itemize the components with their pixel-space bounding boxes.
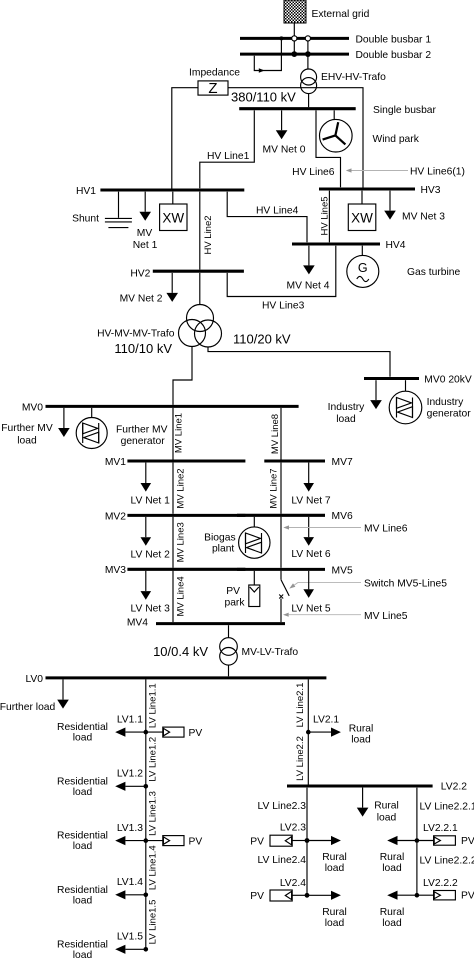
wire HV2 to 3-winding trafo xyxy=(199,273,201,305)
HV-MV-MV-Trafo (3 winding) xyxy=(97,305,291,357)
svg-text:PV: PV xyxy=(461,836,474,847)
busbar HV2 xyxy=(130,269,244,280)
svg-text:LV1.1: LV1.1 xyxy=(117,715,143,726)
HV Line1 xyxy=(200,110,255,188)
svg-text:MV0: MV0 xyxy=(22,403,43,414)
busbar MV2 xyxy=(105,511,246,522)
svg-text:LV2.2.1: LV2.2.1 xyxy=(423,823,458,834)
svg-text:PV: PV xyxy=(461,891,474,902)
svg-text:LV Line2.4: LV Line2.4 xyxy=(258,855,307,866)
biogas plant generator (sgen) xyxy=(204,517,270,559)
further MV load xyxy=(1,408,69,447)
svg-text:Residential: Residential xyxy=(57,831,108,842)
busbar LV2.2 xyxy=(287,782,467,793)
svg-text:MV Line4: MV Line4 xyxy=(176,576,187,616)
svg-text:MV Net 2: MV Net 2 xyxy=(120,293,163,304)
svg-text:MV Line1: MV Line1 xyxy=(174,413,185,453)
HV Line4 xyxy=(227,192,307,243)
svg-text:Rural: Rural xyxy=(322,852,347,863)
external grid xyxy=(284,0,370,23)
bus coupler busbar1-busbar2 xyxy=(254,36,283,72)
svg-text:load: load xyxy=(382,918,402,929)
PV at LV1.3 xyxy=(146,836,203,848)
svg-text:MV7: MV7 xyxy=(332,457,353,468)
svg-text:HV Line6: HV Line6 xyxy=(292,167,335,178)
svg-text:Double busbar 1: Double busbar 1 xyxy=(356,34,432,45)
impedance Z xyxy=(172,68,363,189)
svg-text:Rural: Rural xyxy=(380,852,405,863)
svg-text:MV Line2: MV Line2 xyxy=(176,468,187,508)
svg-text:generator: generator xyxy=(427,409,472,420)
svg-text:LV Net 3: LV Net 3 xyxy=(131,604,171,615)
svg-text:load: load xyxy=(73,950,93,958)
svg-text:HV Line1: HV Line1 xyxy=(207,151,250,162)
svg-text:LV2.2: LV2.2 xyxy=(441,782,467,793)
busbar LV0 xyxy=(25,674,326,685)
svg-text:load: load xyxy=(73,733,93,744)
load LV Net 2 xyxy=(131,517,171,560)
svg-text:LV Line1.2: LV Line1.2 xyxy=(148,737,159,782)
svg-text:Rural: Rural xyxy=(322,907,347,918)
svg-text:HV Line5: HV Line5 xyxy=(320,196,331,235)
svg-text:LV1.3: LV1.3 xyxy=(117,823,143,834)
shunt at HV1 xyxy=(72,192,132,228)
HV Line2 xyxy=(200,192,214,270)
svg-text:Shunt: Shunt xyxy=(72,214,99,225)
svg-text:Gas turbine: Gas turbine xyxy=(407,267,461,278)
node LV1.2 residential load xyxy=(57,769,148,798)
svg-text:10/0.4 kV: 10/0.4 kV xyxy=(153,644,208,659)
svg-text:load: load xyxy=(325,863,345,874)
wire trafo MV winding to MV0 20kV xyxy=(208,347,390,377)
svg-text:LV Line1.3: LV Line1.3 xyxy=(148,791,159,836)
svg-text:HV2: HV2 xyxy=(130,269,150,280)
svg-text:generator: generator xyxy=(121,436,166,447)
busbar HV1 xyxy=(76,186,244,197)
svg-text:Industry: Industry xyxy=(427,397,464,408)
node LV1.1 residential load xyxy=(57,715,148,744)
double busbar 2 xyxy=(240,50,431,61)
svg-text:Industry: Industry xyxy=(328,402,365,413)
pointer HV Line6(1) xyxy=(346,167,465,178)
MV Line7 xyxy=(269,463,282,514)
svg-text:MV6: MV6 xyxy=(332,511,353,522)
svg-text:MV Line3: MV Line3 xyxy=(176,522,187,562)
svg-text:HV Line4: HV Line4 xyxy=(256,206,299,217)
load MV Net 1 xyxy=(133,192,158,251)
svg-text:LV2.3: LV2.3 xyxy=(280,823,306,834)
svg-text:load: load xyxy=(325,918,345,929)
svg-text:park: park xyxy=(224,598,245,609)
double busbar 1 xyxy=(240,34,431,45)
node LV2.4 xyxy=(280,878,347,929)
svg-text:HV4: HV4 xyxy=(386,240,406,251)
svg-text:110/10 kV: 110/10 kV xyxy=(114,341,172,356)
svg-text:Biogas: Biogas xyxy=(204,533,235,544)
PV at LV2.3 xyxy=(250,835,307,847)
svg-text:Residential: Residential xyxy=(57,939,108,950)
svg-text:load: load xyxy=(351,735,371,746)
svg-text:MV Net 0: MV Net 0 xyxy=(263,145,306,156)
PV at LV1.1 xyxy=(146,727,203,739)
svg-text:XW: XW xyxy=(162,210,184,225)
svg-text:LV Line2.3: LV Line2.3 xyxy=(258,801,307,812)
busbar MV0 xyxy=(22,403,299,414)
svg-text:LV Line2.2.2: LV Line2.2.2 xyxy=(420,856,474,867)
load MV Net 2 xyxy=(120,273,178,304)
svg-text:PV: PV xyxy=(226,586,240,597)
extended ward XW at HV1 xyxy=(160,192,187,231)
PV at LV2.2.2 xyxy=(417,891,474,902)
svg-text:load: load xyxy=(73,787,93,798)
busbar MV5 xyxy=(237,565,353,576)
wire trafo LV winding to MV0 xyxy=(173,346,192,405)
busbar MV4 xyxy=(127,618,285,629)
svg-text:plant: plant xyxy=(212,544,234,555)
svg-text:MV0 20kV: MV0 20kV xyxy=(424,375,472,386)
EHV-HV-Trafo xyxy=(301,69,387,94)
svg-text:LV1.5: LV1.5 xyxy=(117,932,143,943)
svg-text:MV Net 4: MV Net 4 xyxy=(287,281,330,292)
svg-text:Residential: Residential xyxy=(57,776,108,787)
svg-text:load: load xyxy=(336,414,356,425)
svg-text:MV1: MV1 xyxy=(105,457,126,468)
svg-text:Further load: Further load xyxy=(0,702,56,713)
svg-text:load: load xyxy=(377,813,397,824)
svg-text:Residential: Residential xyxy=(57,885,108,896)
svg-text:Double busbar 2: Double busbar 2 xyxy=(356,50,432,61)
pointer MV Line6 xyxy=(283,524,407,535)
svg-text:LV Line1.5: LV Line1.5 xyxy=(148,900,159,945)
LV feeder 2 wire xyxy=(307,679,309,786)
svg-text:MV Line8: MV Line8 xyxy=(270,414,281,454)
svg-text:110/20 kV: 110/20 kV xyxy=(233,332,291,347)
load LV Net 5 xyxy=(291,571,331,615)
svg-text:LV Net 6: LV Net 6 xyxy=(291,549,331,560)
svg-text:load: load xyxy=(382,863,402,874)
load MV Net 4 xyxy=(287,246,330,292)
svg-text:MV5: MV5 xyxy=(332,565,353,576)
svg-text:LV1.4: LV1.4 xyxy=(117,877,143,888)
switch MV5-Line5 (open) xyxy=(279,571,289,599)
svg-text:PV: PV xyxy=(250,891,264,902)
svg-text:Switch MV5-Line5: Switch MV5-Line5 xyxy=(364,579,447,590)
busbar MV6 xyxy=(237,511,353,522)
node LV2.1 rural load xyxy=(306,715,373,746)
svg-text:LV2.1: LV2.1 xyxy=(313,715,339,726)
svg-text:Single busbar: Single busbar xyxy=(373,105,437,116)
svg-text:LV2.2.2: LV2.2.2 xyxy=(423,878,458,889)
svg-text:Impedance: Impedance xyxy=(189,68,240,79)
extended ward XW at HV3 xyxy=(348,191,376,231)
svg-text:MV2: MV2 xyxy=(105,511,126,522)
svg-text:PV: PV xyxy=(250,836,264,847)
svg-text:HV Line3: HV Line3 xyxy=(262,301,305,312)
svg-text:LV1.2: LV1.2 xyxy=(117,769,143,780)
busbar HV3 xyxy=(319,185,441,196)
MV Line1 xyxy=(173,408,185,460)
wire busbar2 to EHV-HV-Trafo xyxy=(307,54,309,69)
svg-text:Residential: Residential xyxy=(57,722,108,733)
industry generator (sgen) xyxy=(389,380,471,424)
MV Line2 xyxy=(173,463,187,514)
svg-text:PV: PV xyxy=(189,728,203,739)
wire busbar1 to busbar2 second bay xyxy=(307,38,309,54)
svg-text:Z: Z xyxy=(208,80,217,97)
MV Line5 wire xyxy=(280,599,282,623)
svg-text:HV Line2: HV Line2 xyxy=(203,215,214,254)
svg-text:Further MV: Further MV xyxy=(1,423,53,434)
LV Line2.2.x branch wire xyxy=(416,788,418,896)
industry load xyxy=(328,380,382,425)
svg-text:HV-MV-MV-Trafo: HV-MV-MV-Trafo xyxy=(97,329,175,340)
load LV Net 7 xyxy=(291,463,331,507)
rural load at LV2.2 xyxy=(357,788,399,824)
svg-text:MV Line5: MV Line5 xyxy=(364,611,408,622)
svg-text:load: load xyxy=(73,895,93,906)
gas turbine generator xyxy=(347,246,461,288)
svg-text:EHV-HV-Trafo: EHV-HV-Trafo xyxy=(321,72,386,83)
svg-text:HV Line6(1): HV Line6(1) xyxy=(410,167,465,178)
busbar MV1 xyxy=(105,457,246,468)
node LV1.5 residential load xyxy=(57,932,148,958)
load MV Net 3 xyxy=(384,191,445,223)
HV Line5 xyxy=(320,191,331,243)
load MV Net 0 xyxy=(263,110,306,155)
svg-text:MV Net 3: MV Net 3 xyxy=(402,212,445,223)
svg-text:LV Net 1: LV Net 1 xyxy=(131,496,171,507)
wind park generator xyxy=(320,110,420,152)
svg-text:LV Line1.1: LV Line1.1 xyxy=(148,683,159,728)
svg-text:load: load xyxy=(73,841,93,852)
further load xyxy=(0,679,69,712)
svg-text:Wind park: Wind park xyxy=(373,134,420,145)
svg-text:MV: MV xyxy=(137,228,153,239)
node LV1.4 residential load xyxy=(57,877,148,906)
svg-text:LV Net 5: LV Net 5 xyxy=(291,604,331,615)
svg-text:PV: PV xyxy=(189,836,203,847)
PV at LV2.2.1 xyxy=(417,836,474,847)
node LV2.2.2 xyxy=(380,878,458,929)
PV park (sgen) xyxy=(224,571,259,609)
svg-text:Rural: Rural xyxy=(349,724,374,735)
svg-text:LV Net 7: LV Net 7 xyxy=(291,496,331,507)
MV-LV-Trafo xyxy=(153,625,298,676)
svg-text:External grid: External grid xyxy=(312,9,370,20)
svg-text:HV3: HV3 xyxy=(421,185,441,196)
svg-text:LV Line1.4: LV Line1.4 xyxy=(148,845,159,890)
svg-text:LV2.4: LV2.4 xyxy=(280,878,306,889)
svg-text:MV Line7: MV Line7 xyxy=(269,468,280,508)
svg-text:LV Line2.2.1: LV Line2.2.1 xyxy=(420,802,474,813)
svg-text:MV Line6: MV Line6 xyxy=(364,524,408,535)
load LV Net 1 xyxy=(131,463,171,507)
node LV2.3 xyxy=(280,823,347,874)
svg-text:LV Line2.1: LV Line2.1 xyxy=(295,683,306,728)
load LV Net 6 xyxy=(291,517,331,560)
closed switch dots on busbar 2 xyxy=(291,51,297,57)
busbar MV3 xyxy=(105,565,246,576)
svg-text:380/110 kV: 380/110 kV xyxy=(231,90,296,105)
PV at LV2.4 xyxy=(250,890,307,902)
wire external grid to double busbar 2 xyxy=(293,23,295,54)
single busbar xyxy=(239,105,436,116)
MV Line8 xyxy=(270,408,281,460)
LV Line2.3 / 2.4 branch wire xyxy=(306,788,308,896)
svg-text:Further MV: Further MV xyxy=(116,425,168,436)
MV Line3 xyxy=(173,517,187,568)
HV Line6 xyxy=(292,110,340,187)
svg-text:Rural: Rural xyxy=(380,907,405,918)
wire trafo to single busbar xyxy=(308,94,310,108)
svg-text:load: load xyxy=(17,436,37,447)
busbar MV0 20kV xyxy=(364,375,472,386)
further MV generator (sgen) xyxy=(76,408,167,449)
load LV Net 3 xyxy=(131,571,171,615)
busbar HV4 xyxy=(292,240,406,251)
svg-text:MV3: MV3 xyxy=(105,565,126,576)
svg-text:LV Net 2: LV Net 2 xyxy=(131,549,171,560)
svg-text:HV1: HV1 xyxy=(76,186,96,197)
svg-text:Net 1: Net 1 xyxy=(133,240,158,251)
LV feeder 1 wire xyxy=(145,679,147,949)
open switch circles on busbar 1 xyxy=(292,36,297,41)
svg-text:LV0: LV0 xyxy=(25,674,43,685)
HV Line3 xyxy=(227,246,336,312)
pointer Switch MV5-Line5 xyxy=(289,579,447,590)
node LV1.3 residential load xyxy=(57,823,148,852)
pointer MV Line5 xyxy=(283,611,408,622)
svg-text:XW: XW xyxy=(351,210,373,225)
busbar MV7 xyxy=(264,457,353,468)
svg-text:MV-LV-Trafo: MV-LV-Trafo xyxy=(242,647,299,658)
node LV2.2.1 xyxy=(380,823,458,874)
MV Line4 xyxy=(173,571,187,622)
svg-text:LV Line2.2: LV Line2.2 xyxy=(295,736,306,781)
svg-text:Rural: Rural xyxy=(374,801,399,812)
svg-text:G: G xyxy=(358,261,368,275)
MV Line6 wire xyxy=(280,517,282,568)
svg-text:MV4: MV4 xyxy=(127,618,148,629)
